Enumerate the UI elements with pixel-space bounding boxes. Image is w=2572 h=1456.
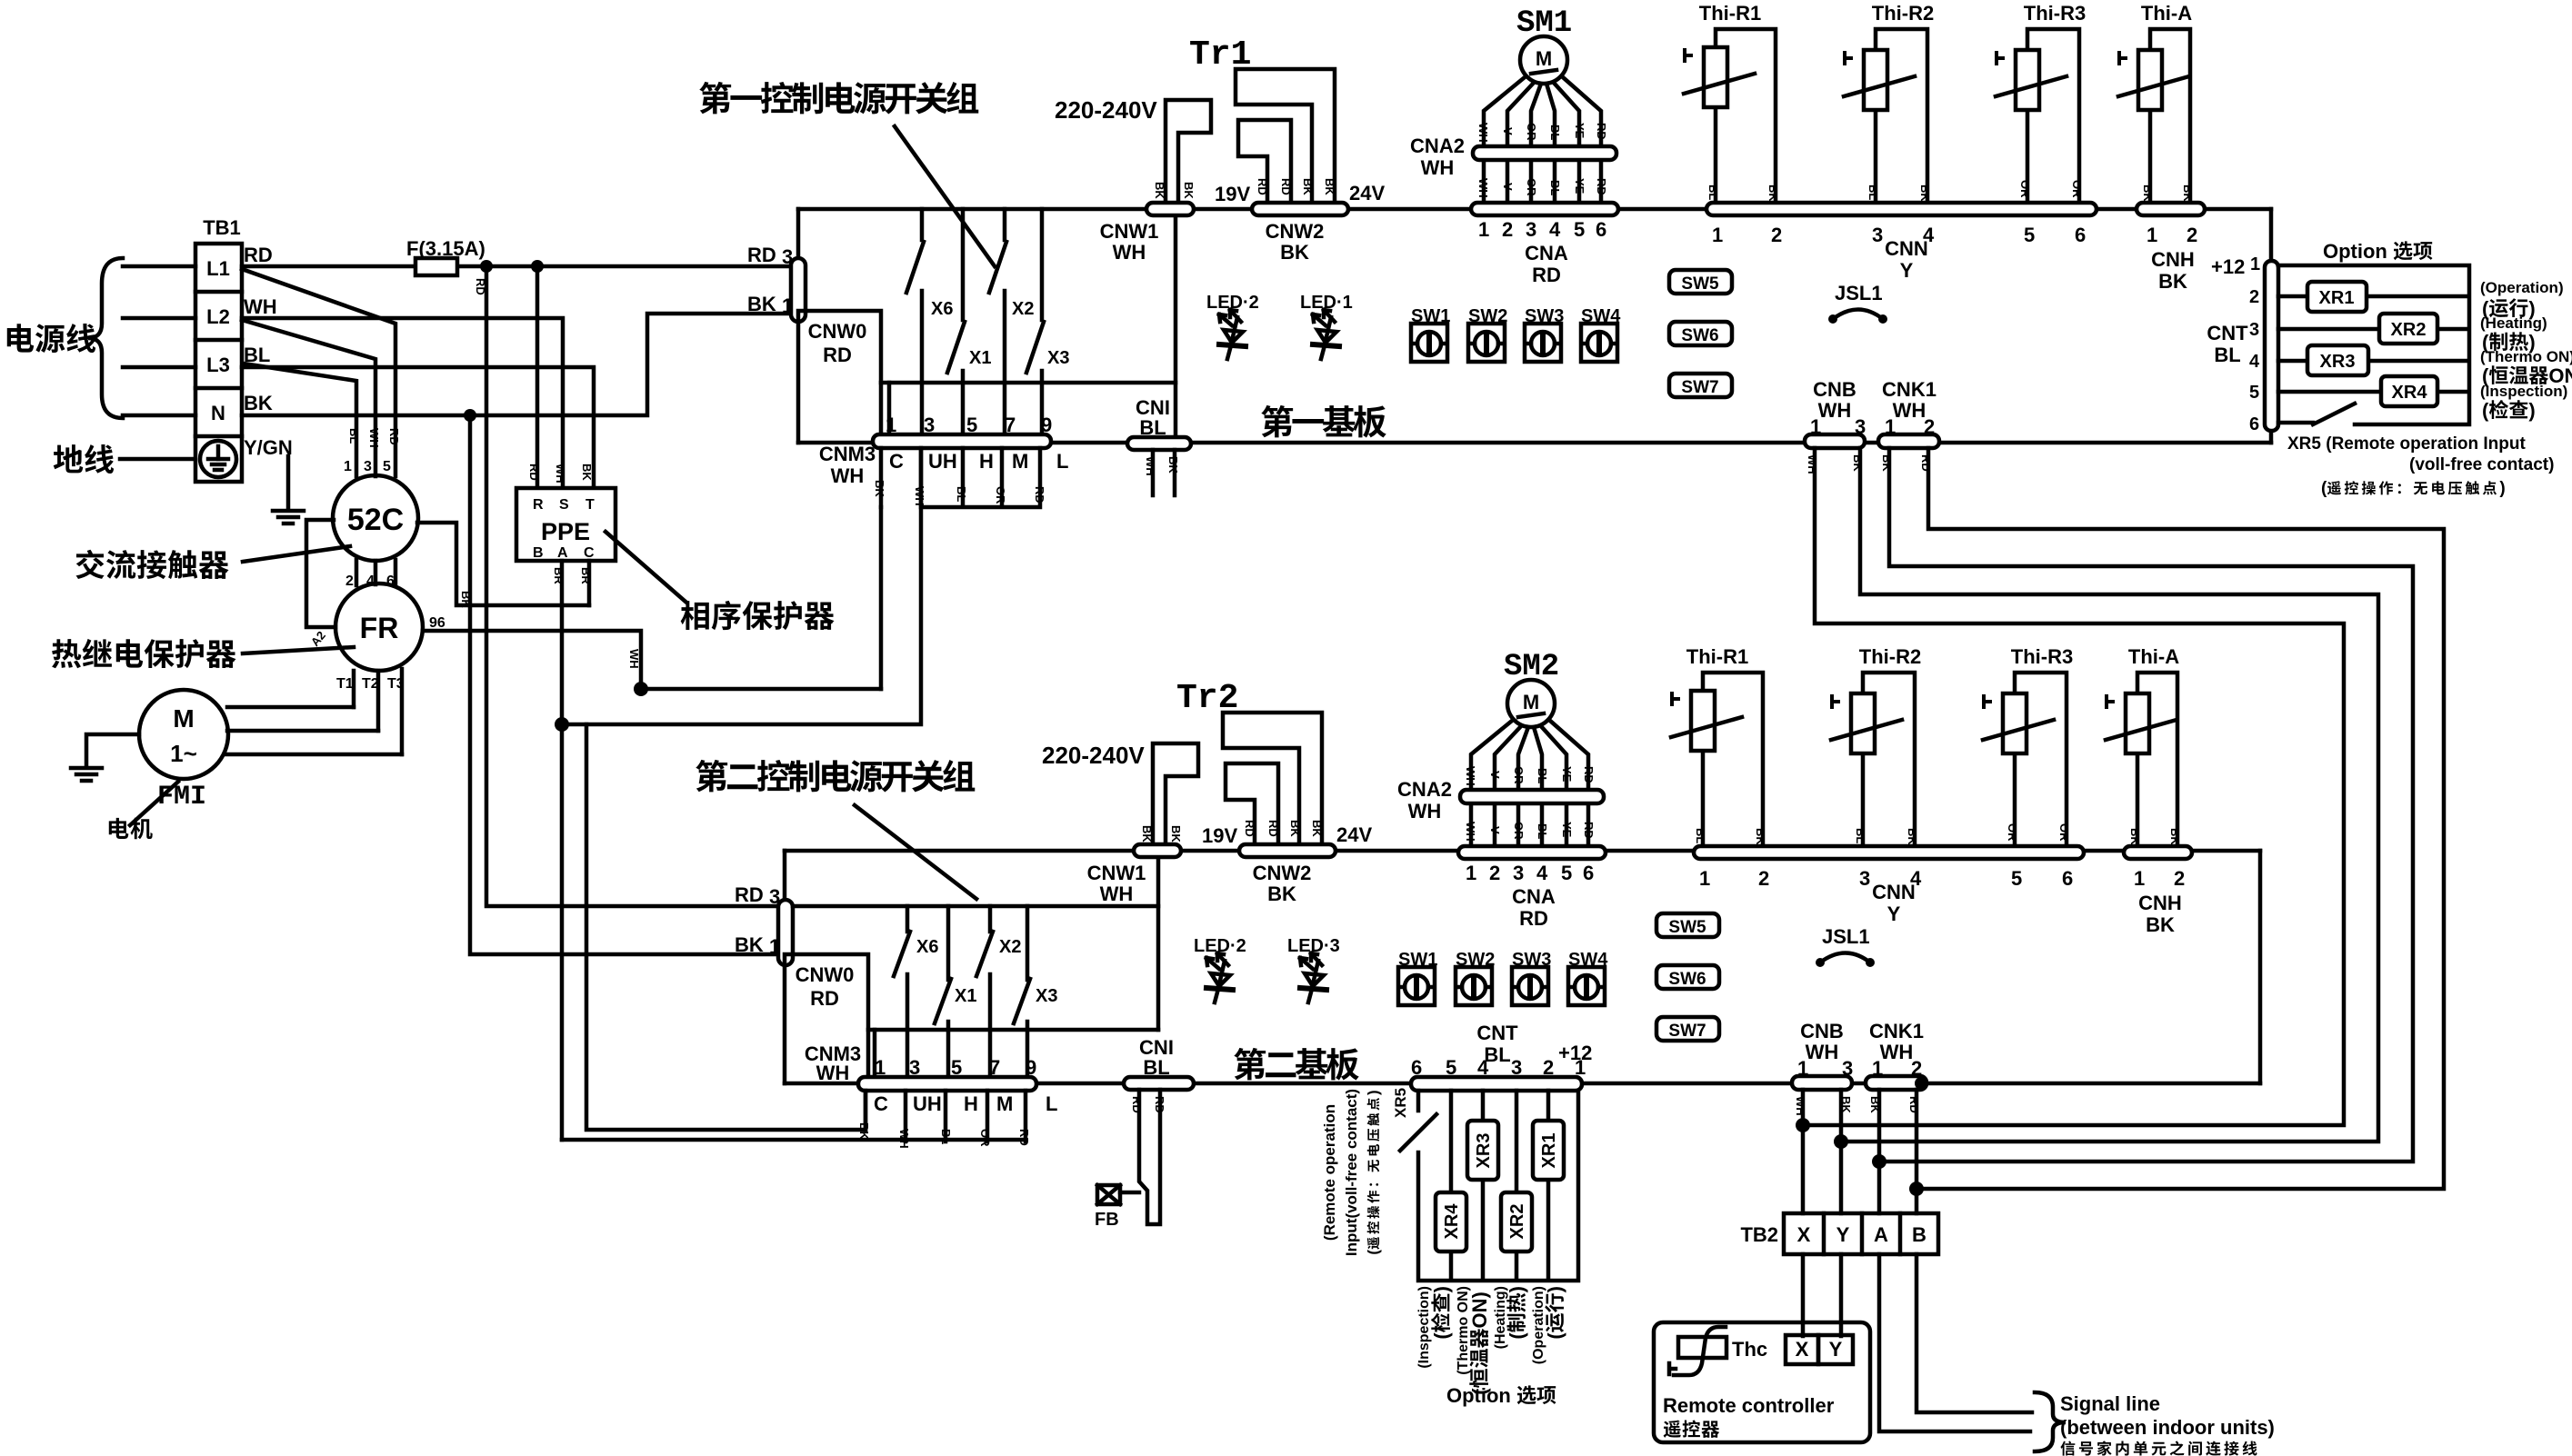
svg-text:BK: BK — [1880, 454, 1894, 472]
svg-text:L1: L1 — [206, 257, 230, 280]
svg-text:BK: BK — [1754, 828, 1767, 845]
CNM3 cells — [881, 448, 1040, 507]
svg-text:RD: RD — [1017, 1129, 1031, 1146]
svg-text:OR: OR — [1512, 822, 1526, 840]
svg-text:Thi-R2: Thi-R2 — [1872, 2, 1934, 25]
relay XR1 board2 — [1533, 1121, 1564, 1180]
svg-text:): ) — [2499, 479, 2505, 498]
board1 left edge — [796, 209, 801, 314]
svg-text:Thi-A: Thi-A — [2141, 2, 2192, 25]
svg-text:(: ( — [2321, 479, 2327, 498]
svg-text:3: 3 — [1842, 1057, 1853, 1080]
svg-text:RD: RD — [1130, 1096, 1144, 1113]
wire pin1 stub — [887, 383, 892, 435]
wire TB2 B signal — [1916, 1254, 2032, 1412]
SM2 pin labels row2 — [1464, 822, 1596, 842]
junction dot B — [1909, 1182, 1924, 1196]
connector CNT bar — [2265, 261, 2278, 431]
svg-text:X: X — [1797, 1223, 1811, 1246]
option right captions — [2480, 279, 2572, 422]
svg-text:RD: RD — [1582, 822, 1596, 839]
svg-text:Y: Y — [1836, 1223, 1850, 1246]
wire CNB1 pin1 loop — [1803, 448, 2344, 1125]
switch X1 board2 — [946, 906, 951, 1078]
wire CNK1 pin1 loop — [1879, 448, 2413, 1162]
svg-text:TB2: TB2 — [1740, 1223, 1778, 1246]
svg-text:Y: Y — [1887, 903, 1901, 925]
svg-text:T1: T1 — [336, 676, 354, 692]
junction dot RD-2 — [531, 260, 544, 273]
svg-text:RD: RD — [735, 883, 764, 906]
wire CNK1 pin2 loop — [1916, 448, 2444, 1189]
svg-text:WH: WH — [1806, 1041, 1839, 1063]
board1 right edge top — [2269, 209, 2274, 265]
svg-text:220-240V: 220-240V — [1055, 96, 1157, 124]
relay XR1 — [2307, 282, 2367, 312]
rail1 board2 — [793, 904, 1158, 909]
svg-text:Y: Y — [1829, 1338, 1843, 1361]
connector CNW2 bar — [1252, 203, 1348, 215]
connector CNW0 capsule — [791, 258, 806, 322]
svg-text:BL: BL — [1694, 828, 1707, 843]
switch X3 board2 — [1026, 906, 1030, 1078]
svg-text:Y/GN: Y/GN — [244, 436, 293, 459]
connector CNB-2 bar — [1792, 1076, 1852, 1090]
svg-text:3: 3 — [782, 245, 793, 268]
wire PPE C down — [586, 561, 866, 1130]
wire PPE A to CNM3 — [562, 447, 921, 724]
svg-text:BK: BK — [580, 464, 594, 481]
connector CNH-2 bar — [2124, 846, 2192, 859]
svg-text:2: 2 — [1502, 218, 1513, 241]
svg-text:BK: BK — [1310, 820, 1324, 837]
svg-text:V: V — [1501, 127, 1515, 135]
svg-text:SW5: SW5 — [1668, 918, 1706, 937]
svg-text:X3: X3 — [1047, 348, 1069, 368]
svg-text:(: ( — [1430, 1332, 1453, 1340]
board1 bottom bus — [798, 441, 2271, 445]
svg-text:CNW0: CNW0 — [808, 320, 867, 343]
svg-text:CNN: CNN — [1872, 881, 1916, 903]
svg-text:Option: Option — [1446, 1384, 1511, 1407]
switch XR5 blade — [2313, 404, 2355, 424]
diag L1 to 52C — [242, 269, 395, 476]
svg-text:RD: RD — [747, 244, 776, 266]
svg-text:CNB: CNB — [1813, 378, 1856, 401]
svg-text:2: 2 — [1911, 1057, 1922, 1080]
svg-text:(Remote operation: (Remote operation — [1321, 1104, 1338, 1241]
svg-text:1: 1 — [1466, 862, 1476, 884]
switch X2 board2 — [988, 906, 993, 1078]
svg-text:BL: BL — [1854, 828, 1867, 843]
wire L1 stub — [123, 264, 195, 269]
wire TB2 Y to remote — [1839, 1254, 1844, 1336]
svg-text:2: 2 — [1489, 862, 1500, 884]
svg-text:X3: X3 — [1036, 986, 1057, 1006]
svg-text:3: 3 — [2249, 320, 2259, 340]
CNT-2 pin numbers — [1411, 1056, 1586, 1079]
svg-text:2: 2 — [2187, 224, 2197, 246]
svg-text:): ) — [1430, 1286, 1453, 1292]
svg-text:M: M — [173, 704, 194, 733]
svg-text:BL: BL — [1139, 416, 1166, 439]
SM1 pin labels row1 — [1476, 123, 1608, 143]
label 相序保护器 — [681, 601, 835, 630]
label 电机 — [109, 818, 153, 839]
relay XR3 board2 — [1467, 1121, 1498, 1180]
svg-text:2: 2 — [1771, 224, 1782, 246]
wire N/BK to riser — [242, 314, 792, 415]
CNA-2 pin numbers 1-6 — [1466, 862, 1594, 884]
connector CNI-2 bar — [1124, 1077, 1194, 1090]
svg-text:5: 5 — [2024, 224, 2035, 246]
svg-text:CNW2: CNW2 — [1253, 862, 1312, 884]
svg-text:XR4: XR4 — [2392, 383, 2428, 403]
diag L3 to 52C — [244, 364, 356, 476]
connector CNA bar — [1471, 203, 1618, 215]
rail2 board2 — [868, 1028, 1158, 1032]
transformer Tr1 outer — [1236, 69, 1335, 204]
svg-text:Thi-R3: Thi-R3 — [2024, 2, 2086, 25]
connector CNK1 bar — [1878, 434, 1939, 448]
switch SW5 — [1669, 270, 1732, 294]
svg-text:6: 6 — [2075, 224, 2086, 246]
svg-text:CNA2: CNA2 — [1410, 135, 1465, 157]
svg-text:1: 1 — [2250, 254, 2260, 274]
svg-text:WH: WH — [1113, 241, 1146, 264]
board2 right edge — [2258, 851, 2263, 1083]
svg-text:XR1: XR1 — [2319, 288, 2355, 308]
svg-text:RD: RD — [387, 428, 401, 445]
svg-text:WH: WH — [244, 295, 277, 318]
svg-text:BK: BK — [1267, 883, 1296, 905]
svg-text:PPE: PPE — [541, 518, 590, 545]
svg-text:52C: 52C — [347, 503, 404, 537]
CNM3-2 cells — [866, 1091, 1026, 1142]
svg-text:RD: RD — [1919, 454, 1933, 472]
bypass wire 52C-FR — [306, 520, 335, 627]
svg-text:WH: WH — [1806, 454, 1819, 474]
svg-text:XR2: XR2 — [2391, 320, 2427, 340]
svg-text:BK: BK — [244, 392, 273, 414]
svg-text:RD: RD — [1256, 178, 1269, 195]
svg-text:RD: RD — [1582, 766, 1596, 783]
svg-text:X2: X2 — [1012, 299, 1034, 319]
svg-text:X1: X1 — [955, 986, 976, 1006]
svg-text:BK: BK — [1166, 456, 1180, 474]
wire TB2 B — [1915, 1090, 1919, 1213]
svg-text:WH: WH — [1794, 1096, 1807, 1116]
svg-text:BL: BL — [1866, 184, 1880, 200]
SM1 pin labels row2 — [1476, 178, 1608, 198]
svg-text:SW7: SW7 — [1668, 1022, 1706, 1041]
svg-text:M: M — [996, 1092, 1013, 1115]
svg-text:XR3: XR3 — [1474, 1133, 1494, 1169]
svg-text:SW6: SW6 — [1668, 970, 1706, 989]
callout PPE — [605, 532, 686, 602]
label Option 选项 — [2323, 240, 2432, 263]
svg-text:CNH: CNH — [2138, 892, 2182, 914]
svg-text:B: B — [533, 545, 544, 561]
connector CNW0 box — [798, 311, 881, 443]
svg-text:4: 4 — [1549, 218, 1561, 241]
label 电源线 — [7, 324, 95, 353]
svg-text:FB: FB — [1095, 1210, 1119, 1230]
svg-text:1: 1 — [2147, 224, 2157, 246]
svg-text:Option: Option — [2323, 240, 2387, 263]
label 第一基板 — [1261, 405, 1386, 438]
svg-text:(: ( — [1544, 1332, 1566, 1340]
svg-text:RD: RD — [244, 244, 273, 266]
svg-text:WH: WH — [1476, 123, 1490, 143]
svg-text:4: 4 — [1536, 862, 1548, 884]
junction dot Y — [1834, 1134, 1848, 1149]
svg-text:BK: BK — [1182, 182, 1196, 199]
svg-text:OR: OR — [2057, 823, 2071, 842]
svg-text:BL: BL — [955, 486, 968, 502]
svg-text:WH: WH — [627, 649, 641, 669]
svg-text:YE: YE — [1573, 178, 1586, 194]
svg-text:A: A — [557, 545, 568, 561]
board1 top bus — [798, 207, 2271, 212]
relay XR4 — [2381, 376, 2437, 406]
svg-text:RD: RD — [527, 464, 541, 481]
svg-text:X: X — [1796, 1338, 1809, 1361]
connector CNA2 bar — [1473, 146, 1616, 160]
connector CNA2-2 bar — [1460, 790, 1604, 803]
svg-text:+12: +12 — [2211, 255, 2245, 278]
svg-text:CNK1: CNK1 — [1869, 1020, 1924, 1042]
svg-text:BL: BL — [1548, 125, 1562, 140]
svg-text:2: 2 — [1924, 415, 1935, 438]
svg-text:FR: FR — [360, 612, 399, 644]
svg-text:): ) — [1506, 1286, 1528, 1292]
svg-text:A: A — [1874, 1223, 1888, 1246]
svg-text:WH: WH — [1144, 456, 1157, 476]
relay XR2 — [2379, 314, 2437, 344]
svg-text:BK: BK — [1301, 178, 1315, 195]
svg-text:3: 3 — [1526, 218, 1536, 241]
svg-text:L2: L2 — [206, 305, 230, 328]
brace for 电源线 — [88, 258, 123, 418]
svg-text:SW6: SW6 — [1681, 326, 1718, 345]
svg-text:BL: BL — [939, 1129, 953, 1144]
wire L2 stub — [123, 316, 195, 321]
label 热继电保护器 — [52, 639, 235, 668]
svg-text:BK: BK — [747, 293, 776, 315]
svg-text:5: 5 — [2249, 383, 2259, 403]
svg-text:5: 5 — [2011, 867, 2022, 890]
svg-text:L3: L3 — [206, 354, 230, 376]
svg-text:L: L — [1046, 1092, 1057, 1115]
connector CNM3 bar — [873, 434, 1051, 448]
svg-text:Thi-R1: Thi-R1 — [1699, 2, 1761, 25]
wire pin1 stub board2 — [873, 1030, 877, 1078]
svg-text:3: 3 — [1859, 867, 1870, 890]
connector CNN bar — [1706, 203, 2097, 215]
svg-text:1: 1 — [1712, 224, 1723, 246]
fuse FB — [1097, 1185, 1120, 1204]
svg-text:CNK1: CNK1 — [1882, 378, 1937, 401]
wire CNW1-2 pin2 drop — [1156, 856, 1161, 1030]
svg-text:(: ( — [1506, 1332, 1528, 1340]
terminal block TB2 — [1784, 1213, 1938, 1254]
callout to 52C — [243, 546, 350, 562]
svg-text:(Heating): (Heating) — [2480, 314, 2547, 332]
svg-text:CNT: CNT — [2207, 322, 2248, 344]
svg-text:4: 4 — [2249, 352, 2260, 372]
svg-text:(Inspection): (Inspection) — [2480, 383, 2567, 400]
switch X2 — [1003, 209, 1007, 435]
svg-text:2: 2 — [2174, 867, 2185, 890]
svg-text:WH: WH — [1464, 822, 1477, 842]
terminal block TB1 — [195, 244, 242, 482]
svg-text:WH: WH — [913, 486, 926, 506]
remote Y cell — [1818, 1335, 1853, 1364]
svg-text:(between indoor units): (between indoor units) — [2060, 1416, 2275, 1439]
Thc sensor — [1678, 1337, 1726, 1358]
svg-text:R: R — [533, 497, 544, 513]
svg-text:3: 3 — [364, 459, 372, 474]
wire TB2 X to remote — [1801, 1254, 1806, 1336]
connector CNW2-2 bar — [1239, 844, 1336, 857]
svg-text:RD: RD — [1033, 486, 1046, 504]
svg-text:RD: RD — [823, 344, 852, 366]
CNA pin numbers 1-6 — [1478, 218, 1606, 241]
svg-text:BK: BK — [873, 480, 886, 497]
connector CNA-2 bar — [1458, 846, 1606, 859]
svg-text:WH: WH — [1893, 399, 1926, 422]
junction dot PPE A — [555, 717, 569, 732]
thermal relay FR — [335, 583, 423, 671]
svg-text:WH: WH — [1100, 883, 1134, 905]
svg-text:220-240V: 220-240V — [1042, 742, 1145, 769]
connector CNH bar — [2137, 203, 2205, 215]
svg-text:): ) — [2528, 399, 2535, 422]
board2 top bus — [785, 849, 2260, 853]
switch X6 — [920, 209, 925, 435]
svg-text:(voll-free contact): (voll-free contact) — [2409, 455, 2554, 474]
svg-text:Signal line: Signal line — [2060, 1392, 2160, 1415]
wire L3 stub — [123, 365, 195, 370]
svg-text:X2: X2 — [999, 937, 1021, 957]
svg-text:1: 1 — [1478, 218, 1489, 241]
svg-text:BL: BL — [347, 428, 361, 444]
relay XR4 board2 — [1436, 1192, 1466, 1252]
junction dot A — [1872, 1154, 1886, 1169]
svg-text:M: M — [1536, 47, 1552, 70]
svg-text:CNW1: CNW1 — [1100, 220, 1159, 243]
wire TB2 A signal — [1879, 1254, 2030, 1431]
wire earth — [120, 457, 195, 462]
svg-text:WH: WH — [1880, 1041, 1914, 1063]
board2 bottom bus — [785, 1082, 2260, 1086]
svg-text:24V: 24V — [1336, 823, 1372, 846]
SM1 fan wires — [1484, 77, 1601, 204]
svg-text:BL: BL — [1536, 768, 1549, 783]
junction dot RD-1 — [480, 260, 493, 273]
svg-text:BL: BL — [1143, 1056, 1169, 1079]
svg-text:RD: RD — [1266, 820, 1280, 837]
wires FR to motor — [354, 669, 402, 754]
connector CNN-2 bar — [1694, 846, 2084, 859]
switch SW7 — [1669, 374, 1732, 397]
svg-text:Thi-R3: Thi-R3 — [2011, 645, 2073, 668]
svg-text:M: M — [1523, 691, 1539, 713]
svg-text:1: 1 — [344, 459, 352, 474]
svg-text:5: 5 — [1574, 218, 1585, 241]
svg-text:Input(voll-free contact): Input(voll-free contact) — [1343, 1089, 1360, 1256]
svg-text:B: B — [1912, 1223, 1926, 1246]
switch SW7 board2 — [1656, 1017, 1719, 1041]
wire cells bottom board2 — [562, 1138, 1026, 1142]
220-240V hook wire board2 — [1153, 743, 1198, 851]
svg-text:XR4: XR4 — [1442, 1203, 1462, 1240]
wire TB2 A — [1877, 1090, 1882, 1213]
svg-text:WH: WH — [1408, 800, 1442, 823]
switch X3 — [1040, 209, 1045, 435]
svg-text:YE: YE — [1560, 822, 1574, 838]
switch SW5 board2 — [1656, 913, 1719, 937]
svg-text:1: 1 — [1885, 415, 1896, 438]
rail from CNW1 — [881, 381, 1176, 385]
svg-text:WH: WH — [831, 464, 865, 487]
svg-text:BK: BK — [1140, 825, 1154, 843]
svg-text:L: L — [1056, 450, 1068, 473]
label 第一控制电源开关组 — [699, 82, 978, 115]
svg-text:V: V — [1488, 826, 1502, 834]
wires 52C to FR — [356, 560, 395, 585]
earth terminal circle — [200, 441, 236, 477]
svg-text:ON): ON) — [1468, 1291, 1491, 1328]
svg-text:WH: WH — [1476, 178, 1490, 198]
connector CNK1-2 bar — [1866, 1076, 1926, 1090]
wire N stub — [123, 414, 195, 418]
svg-text:BL: BL — [2214, 344, 2240, 366]
svg-text:3: 3 — [769, 885, 780, 908]
remote controller box — [1654, 1322, 1870, 1442]
callout line to switch group 2 — [855, 805, 976, 899]
svg-text:BK: BK — [1851, 454, 1865, 472]
svg-text:BK: BK — [2146, 913, 2175, 936]
svg-text:CNM3: CNM3 — [819, 443, 876, 465]
CNT pin numbers — [2249, 254, 2260, 434]
connector CNW0-2 box — [785, 954, 868, 1083]
svg-text:XR5: XR5 — [1392, 1088, 1409, 1118]
svg-text:JSL1: JSL1 — [1835, 282, 1883, 304]
svg-text:RD: RD — [810, 987, 839, 1010]
svg-text:BK: BK — [2128, 828, 2142, 845]
option box board2 — [1418, 1091, 1578, 1281]
svg-text:BK: BK — [1153, 182, 1166, 199]
svg-text:BK: BK — [1288, 820, 1302, 837]
svg-text:1: 1 — [1699, 867, 1710, 890]
wire L1/RD to board — [242, 264, 792, 269]
svg-text:BL: BL — [1536, 823, 1549, 839]
svg-text:(: ( — [2482, 399, 2489, 422]
transformer Tr2 outer — [1223, 713, 1322, 845]
svg-text:OR: OR — [1525, 178, 1538, 196]
svg-text:YE: YE — [1560, 766, 1574, 783]
svg-text:19V: 19V — [1202, 824, 1237, 847]
diag L2 to 52C — [242, 320, 375, 476]
svg-text:C: C — [889, 450, 904, 473]
svg-text:6: 6 — [1583, 862, 1594, 884]
fuse F — [415, 258, 457, 275]
svg-text:OR: OR — [2070, 180, 2084, 198]
svg-text:BK: BK — [1280, 241, 1309, 264]
motor FMI — [139, 690, 228, 779]
